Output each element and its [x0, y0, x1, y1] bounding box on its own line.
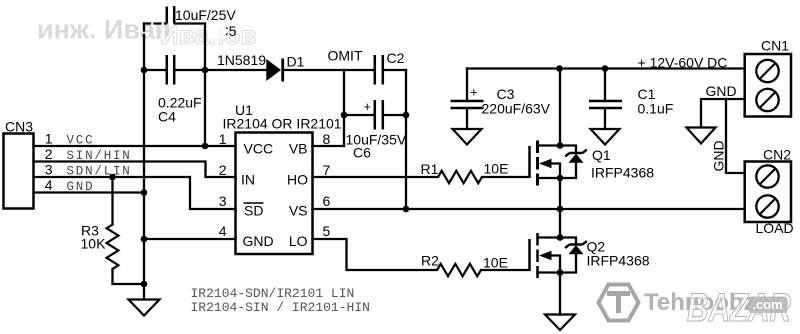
resistor R2: [437, 264, 481, 276]
svg-text:D1: D1: [287, 54, 305, 70]
node GND line / rail junction: [141, 189, 148, 196]
svg-text:LO: LO: [289, 233, 308, 249]
watermark .com box: [749, 297, 788, 314]
node Q1 source junction: [557, 175, 564, 182]
svg-text:7: 7: [323, 162, 331, 178]
wire Q2 source lead: [538, 271, 561, 273]
wire U1 pin 5 LO to R2: [313, 239, 438, 270]
ground C1: [591, 129, 620, 145]
wire D1 cathode to C2: [283, 69, 374, 71]
svg-text:VS: VS: [289, 203, 308, 219]
svg-text:IR2104-SDN/IR2101 LIN: IR2104-SDN/IR2101 LIN: [191, 286, 355, 301]
wire CN3-4 GND: [34, 191, 145, 193]
svg-text:10E: 10E: [483, 255, 508, 271]
transistor Q1: [530, 141, 587, 186]
wire R3 top lead: [111, 177, 113, 225]
svg-text:HO: HO: [287, 172, 308, 188]
wire R3 bottom lead: [113, 269, 145, 284]
wire U1 pin 7 HO to R1: [313, 176, 439, 178]
wire U1 pin 8 VB: [313, 145, 345, 147]
wire Q2 body connection: [550, 256, 560, 273]
node C4 left / GND rail junction: [141, 67, 148, 74]
svg-text:IRFP4368: IRFP4368: [591, 165, 654, 181]
svg-text:6: 6: [323, 193, 331, 209]
svg-text:3: 3: [219, 193, 227, 209]
svg-text:C6: C6: [353, 145, 371, 161]
node VS line / Q1 source junction: [557, 206, 564, 213]
wire C1 bottom lead: [604, 109, 606, 129]
svg-text:3: 3: [45, 162, 53, 178]
node VS line / C6 branch junction: [403, 206, 410, 213]
svg-text:IN: IN: [241, 172, 255, 188]
svg-text:SDN/LIN: SDN/LIN: [67, 165, 132, 179]
svg-text:1N5819: 1N5819: [217, 52, 266, 68]
svg-text:IR2104 OR IR2101: IR2104 OR IR2101: [223, 116, 342, 132]
svg-text:R1: R1: [421, 161, 439, 177]
svg-text:1: 1: [45, 131, 53, 147]
node GND rail / R3 bottom junction: [141, 281, 148, 288]
wire U1 pin 4 GND: [144, 238, 236, 240]
wire C6 row right: [384, 114, 407, 116]
wire C2 right to VS vertical: [384, 69, 407, 71]
svg-text:GND: GND: [706, 83, 737, 99]
svg-text:10E: 10E: [484, 161, 509, 177]
capacitor C5: [167, 6, 174, 24]
wire C5 left dashed lead: [144, 22, 166, 24]
watermark white blob over C5: [209, 25, 226, 39]
wire VS line U1 pin 6 to CN2: [313, 208, 745, 210]
capacitor C4: [167, 55, 174, 85]
svg-text:GND: GND: [243, 233, 274, 249]
svg-text:10uF/25V: 10uF/25V: [175, 7, 236, 23]
svg-text:2: 2: [45, 146, 53, 162]
capacitor C3: [451, 101, 484, 108]
wire C4 to D1 anode: [175, 69, 267, 71]
wire CN3-1 VCC to U1 pin 1: [34, 145, 236, 147]
wire CN3-2 SIN/HIN to U1 pin 2: [34, 162, 236, 178]
svg-text:GND: GND: [711, 140, 727, 171]
svg-text:VCC: VCC: [67, 134, 95, 148]
node Q2 drain junction: [557, 234, 564, 241]
node +12V rail / Q1 drain junction: [556, 65, 563, 72]
op-amp U1 box IR2104: [236, 133, 313, 255]
wire CN3-3 SDN/LIN to U1 pin 3: [34, 177, 236, 209]
wire C3 bottom lead: [466, 109, 468, 129]
resistor R1: [438, 171, 482, 183]
svg-text:+ 12V-60V DC: + 12V-60V DC: [638, 55, 728, 71]
wire C3 top lead: [466, 69, 468, 101]
wire Q1 drain vertical: [559, 69, 561, 146]
node C6 left / VB junction: [341, 112, 348, 119]
wire Q2 source to ground: [559, 273, 561, 315]
wire C5 dashed corner vertical: [143, 24, 145, 37]
wire R1 to Q1 gate: [482, 176, 530, 178]
svg-text:CN1: CN1: [761, 38, 789, 54]
node C6 right / VS junction: [403, 112, 410, 119]
connector CN3 box: [4, 134, 34, 209]
svg-text:VB: VB: [289, 141, 308, 157]
node SDN line / R3 junction: [109, 174, 116, 181]
connector CN1 box: [745, 54, 791, 117]
svg-text:5: 5: [323, 223, 331, 239]
svg-text:CN3: CN3: [5, 119, 33, 135]
svg-text:4: 4: [219, 223, 227, 239]
capacitor C6: [375, 100, 383, 130]
wire C1 top lead: [604, 69, 606, 101]
wire C5 right lead: [175, 22, 205, 24]
wire Q1 drain lead: [538, 146, 577, 153]
svg-text:0.1uF: 0.1uF: [638, 101, 674, 117]
node +12V rail / C1 junction: [602, 65, 609, 72]
svg-text:+: +: [364, 99, 372, 114]
wire Q1 source lead: [538, 177, 561, 179]
svg-text:VCC: VCC: [244, 141, 274, 157]
svg-text:SIN/HIN: SIN/HIN: [67, 149, 132, 163]
wire Q1 body connection: [550, 164, 560, 179]
wire GND branch to CN2 pin1: [726, 99, 745, 173]
node C4 right / D1 anode / VCC junction: [202, 67, 209, 74]
capacitor C2: [375, 55, 383, 85]
ground Q2 source: [545, 315, 575, 331]
ground left (R3/U1 GND): [129, 300, 160, 316]
svg-text:IRFP4368: IRFP4368: [587, 253, 650, 269]
svg-text:R2: R2: [421, 253, 439, 269]
ground C3: [453, 129, 482, 145]
svg-text:1: 1: [219, 131, 227, 147]
svg-text:инж. Иван: инж. Иван: [37, 15, 171, 45]
svg-text:10K: 10K: [81, 236, 107, 252]
capacitor C1: [589, 101, 622, 108]
wire VCC vertical from C5/D1 junction: [204, 24, 206, 147]
wire C6 row left: [344, 114, 374, 116]
svg-text:IR2104-SIN / IR2101-HIN: IR2104-SIN / IR2101-HIN: [191, 300, 370, 315]
svg-text:C2: C2: [387, 50, 405, 66]
ground CN1 GND: [687, 128, 716, 144]
svg-text:LOAD: LOAD: [756, 220, 794, 236]
svg-text:GND: GND: [67, 180, 95, 194]
node Q2 source junction: [557, 269, 564, 276]
svg-text:CN2: CN2: [763, 147, 791, 163]
wire Q2 drain vertical: [559, 209, 561, 238]
svg-text:+: +: [470, 85, 478, 100]
wire node VCC row y70 left segment: [144, 69, 166, 71]
wire Q1 source to VS: [559, 178, 561, 209]
wire Q2 drain lead: [538, 238, 577, 245]
transistor Q2: [530, 233, 587, 278]
svg-text:SD: SD: [244, 203, 263, 219]
svg-text:4: 4: [45, 177, 53, 193]
wire R2 to Q2 gate: [481, 269, 530, 271]
svg-text:Q1: Q1: [592, 147, 611, 163]
svg-text:.com: .com: [752, 297, 782, 312]
node VCC line junction: [202, 143, 209, 150]
wire left GND rail vertical: [143, 35, 145, 300]
svg-text:2: 2: [219, 162, 227, 178]
diode D1: [266, 59, 282, 82]
wire CN1 pin2 GND: [701, 99, 745, 127]
wire VB vertical left of C2/C6: [343, 70, 345, 146]
svg-text:OMIT: OMIT: [328, 48, 363, 64]
watermark hexagon logo: [599, 285, 639, 321]
node GND rail / U1 pin4 junction: [141, 236, 148, 243]
node Q1 drain junction: [557, 142, 564, 149]
wire Q2 body-diode anode return: [560, 254, 576, 273]
svg-text:220uF/63V: 220uF/63V: [482, 101, 551, 117]
wire +12V rail: [467, 67, 745, 69]
connector CN2 box: [745, 162, 791, 223]
wire VS vertical right of C2/C6: [405, 70, 407, 209]
wire Q1 body-diode anode return: [560, 163, 576, 179]
svg-text:8: 8: [323, 131, 331, 147]
svg-text:C4: C4: [158, 109, 176, 125]
resistor R3: [107, 225, 119, 270]
